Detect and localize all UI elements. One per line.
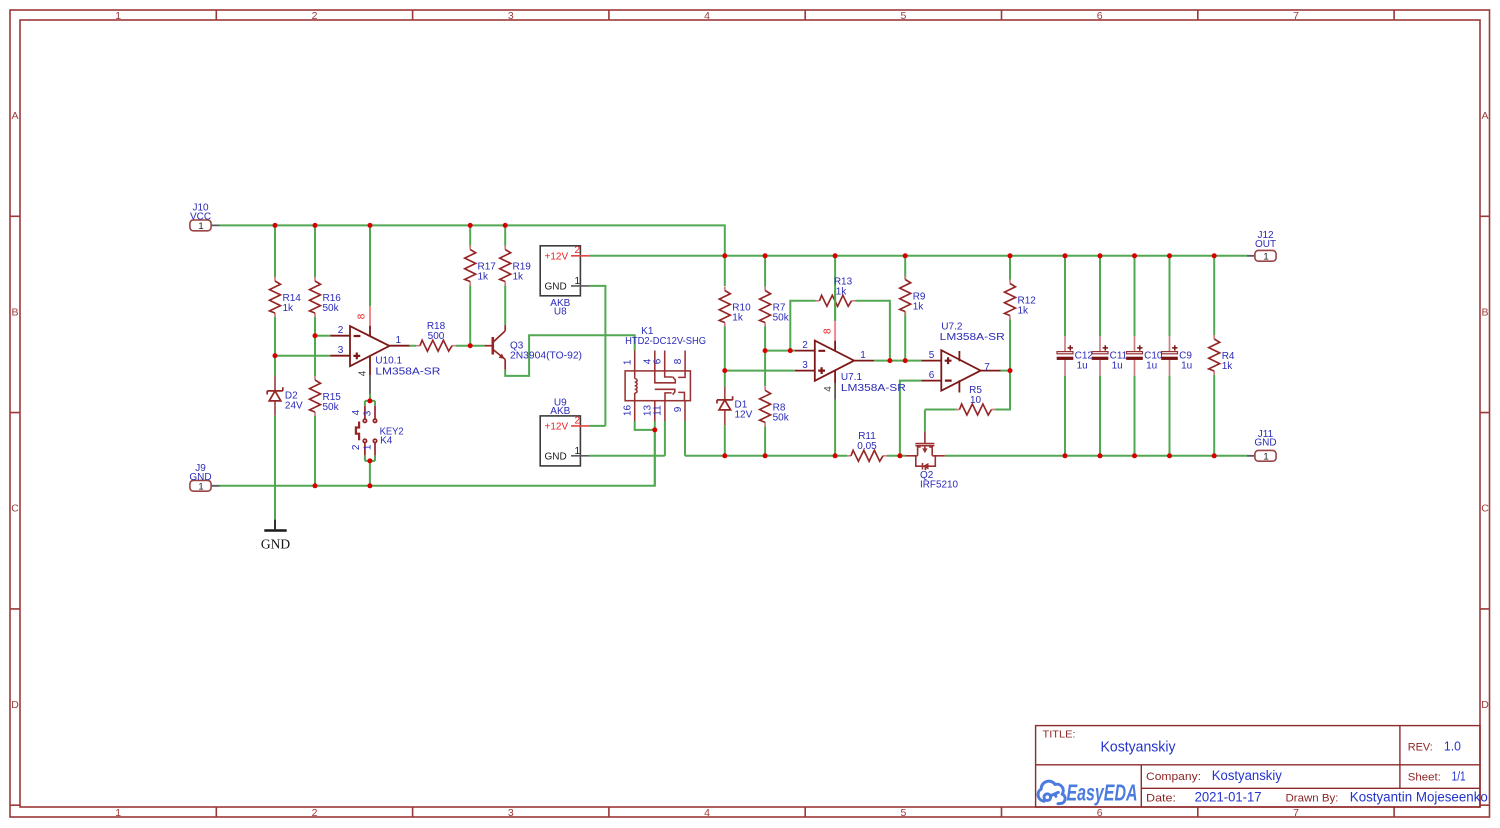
svg-text:VCC: VCC (190, 212, 211, 223)
svg-text:K4: K4 (380, 435, 393, 446)
svg-text:OUT: OUT (1255, 239, 1276, 250)
svg-text:1k: 1k (732, 313, 744, 324)
svg-text:1u: 1u (1146, 361, 1157, 372)
svg-text:50k: 50k (323, 303, 340, 314)
svg-text:4: 4 (357, 370, 368, 376)
svg-text:A: A (11, 110, 18, 122)
svg-text:1.0: 1.0 (1444, 739, 1461, 754)
svg-text:16: 16 (622, 405, 633, 417)
svg-text:U10.1: U10.1 (375, 356, 402, 367)
svg-text:Kostyanskiy: Kostyanskiy (1212, 768, 1282, 783)
svg-text:6: 6 (929, 370, 935, 381)
svg-text:1k: 1k (1222, 361, 1234, 372)
svg-text:3: 3 (338, 345, 344, 356)
svg-text:1k: 1k (1018, 306, 1030, 317)
svg-text:6: 6 (1097, 10, 1103, 22)
svg-text:500: 500 (428, 331, 445, 342)
svg-text:12V: 12V (735, 409, 753, 420)
svg-text:1u: 1u (1112, 361, 1123, 372)
svg-text:2: 2 (351, 444, 362, 450)
svg-text:TITLE:: TITLE: (1043, 729, 1076, 741)
svg-text:REV:: REV: (1408, 742, 1433, 754)
svg-text:50k: 50k (773, 412, 790, 423)
svg-text:GND: GND (545, 451, 567, 462)
svg-text:8: 8 (357, 313, 368, 319)
svg-text:11: 11 (653, 405, 664, 416)
svg-text:GND: GND (1254, 438, 1276, 449)
svg-text:8: 8 (673, 358, 684, 364)
svg-text:+12V: +12V (545, 251, 569, 262)
svg-text:HTD2-DC12V-SHG: HTD2-DC12V-SHG (625, 336, 706, 347)
svg-text:1: 1 (115, 807, 121, 819)
svg-text:3: 3 (508, 10, 514, 22)
svg-text:1k: 1k (478, 272, 490, 283)
svg-text:Sheet:: Sheet: (1408, 772, 1441, 784)
svg-text:50k: 50k (773, 313, 790, 324)
svg-text:Date:: Date: (1146, 793, 1176, 805)
svg-text:EasyEDA: EasyEDA (1067, 780, 1138, 806)
svg-text:2021-01-17: 2021-01-17 (1195, 790, 1262, 805)
svg-text:5: 5 (929, 350, 935, 361)
svg-text:1/1: 1/1 (1452, 769, 1466, 784)
svg-text:2: 2 (338, 325, 344, 336)
svg-text:1: 1 (623, 359, 634, 365)
svg-text:C: C (1481, 503, 1489, 515)
svg-text:6: 6 (653, 358, 664, 364)
svg-text:1: 1 (115, 10, 121, 22)
svg-text:4: 4 (704, 10, 710, 22)
svg-text:1: 1 (860, 350, 866, 361)
svg-text:D: D (11, 699, 19, 711)
svg-text:Kostyanskiy: Kostyanskiy (1101, 740, 1177, 756)
svg-text:C: C (11, 503, 19, 515)
svg-text:4: 4 (823, 386, 834, 392)
svg-text:IRF5210: IRF5210 (920, 480, 958, 491)
svg-text:1k: 1k (513, 272, 525, 283)
svg-text:1: 1 (396, 335, 402, 346)
svg-text:1: 1 (362, 444, 373, 450)
svg-text:4: 4 (351, 409, 362, 415)
svg-text:24V: 24V (285, 401, 303, 412)
svg-text:3: 3 (508, 807, 514, 819)
svg-text:LM358A-SR: LM358A-SR (375, 367, 440, 378)
svg-text:0.05: 0.05 (857, 441, 877, 452)
svg-text:2: 2 (574, 415, 580, 426)
svg-text:1k: 1k (836, 287, 848, 298)
svg-text:A: A (1481, 110, 1488, 122)
svg-text:1u: 1u (1077, 361, 1088, 372)
svg-text:2: 2 (574, 245, 580, 256)
svg-text:B: B (11, 306, 18, 318)
svg-text:GND: GND (189, 472, 211, 483)
svg-text:Kostyantin Mojeseenko: Kostyantin Mojeseenko (1350, 790, 1488, 805)
svg-text:9: 9 (673, 406, 684, 412)
svg-text:D: D (1481, 699, 1489, 711)
svg-text:5: 5 (900, 807, 906, 819)
svg-text:B: B (1481, 306, 1488, 318)
svg-text:1k: 1k (913, 302, 925, 313)
svg-text:3: 3 (362, 410, 373, 416)
svg-text:Drawn By:: Drawn By: (1286, 793, 1339, 805)
svg-text:1: 1 (574, 446, 580, 457)
svg-text:LM358A-SR: LM358A-SR (841, 383, 906, 394)
svg-text:3: 3 (802, 360, 808, 371)
svg-text:2: 2 (312, 10, 318, 22)
svg-text:6: 6 (1097, 807, 1103, 819)
svg-text:AKB: AKB (550, 406, 570, 417)
svg-text:2N3904(TO-92): 2N3904(TO-92) (510, 351, 582, 362)
svg-text:2: 2 (802, 340, 808, 351)
svg-text:GND: GND (545, 281, 567, 292)
svg-text:8: 8 (823, 328, 834, 334)
svg-text:5: 5 (900, 10, 906, 22)
svg-text:7: 7 (984, 362, 990, 373)
svg-text:GND: GND (261, 537, 290, 552)
svg-text:1u: 1u (1181, 361, 1192, 372)
svg-text:Company:: Company: (1146, 771, 1201, 783)
svg-text:+12V: +12V (545, 421, 569, 432)
svg-text:4: 4 (704, 807, 710, 819)
svg-text:LM358A-SR: LM358A-SR (940, 332, 1005, 343)
svg-text:2: 2 (312, 807, 318, 819)
svg-text:1k: 1k (283, 303, 295, 314)
svg-text:U7.1: U7.1 (841, 372, 863, 383)
svg-text:1: 1 (574, 276, 580, 287)
svg-text:7: 7 (1293, 807, 1299, 819)
svg-text:U8: U8 (554, 307, 567, 318)
svg-text:50k: 50k (323, 402, 340, 413)
svg-text:10: 10 (970, 395, 982, 406)
svg-text:7: 7 (1293, 10, 1299, 22)
